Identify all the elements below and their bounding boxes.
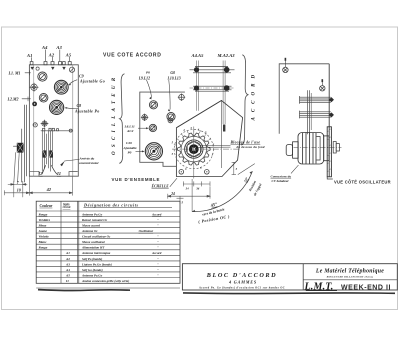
capacitor stack upper	[300, 96, 331, 104]
svg-text:A2: A2	[48, 52, 55, 57]
side bracket	[22, 105, 27, 182]
hub nut hexagon	[187, 142, 200, 157]
svg-text:": "	[157, 224, 159, 228]
bolt top-left	[283, 67, 288, 72]
table grid	[36, 201, 180, 288]
svg-text:CV baladeur: CV baladeur	[272, 179, 290, 183]
svg-text:Blanc: Blanc	[38, 240, 48, 244]
svg-text:": "	[157, 240, 159, 244]
panel plate accord	[29, 65, 78, 176]
svg-text:Rouge: Rouge	[39, 212, 48, 216]
svg-text:A4.A5: A4.A5	[191, 53, 205, 58]
G_MIDVIEW	[112, 71, 186, 189]
arrow to panel top	[31, 57, 70, 69]
svg-text:BLOC D'ACCORD: BLOC D'ACCORD	[206, 272, 277, 279]
svg-text:Antenne Po.Go: Antenne Po.Go	[81, 273, 103, 277]
svg-text:A5: A5	[65, 52, 72, 57]
G_TITLEBLOCK	[182, 264, 397, 294]
svg-text:Désignation des circuits: Désignation des circuits	[83, 202, 139, 207]
mounting lug A1	[30, 62, 71, 65]
cross bar upper	[190, 67, 235, 73]
svg-text:OSCILLATEUR: OSCILLATEUR	[112, 74, 117, 155]
svg-text:Masse accord: Masse accord	[81, 224, 100, 228]
crosshair screw	[30, 83, 38, 91]
svg-text:Violette: Violette	[39, 235, 50, 239]
mounting plate edge	[328, 64, 330, 177]
dial disc edge	[327, 127, 331, 177]
svg-text:": "	[157, 257, 159, 261]
shaft bushing left	[286, 142, 298, 158]
support rod	[307, 90, 309, 134]
disc foot bracket	[327, 177, 333, 179]
cord to dial	[14, 153, 16, 182]
wheel disc	[185, 140, 203, 158]
bolt head near plate top	[168, 118, 173, 123]
dimension ticks row	[183, 181, 210, 186]
svg-text:L8.L11: L8.L11	[124, 125, 135, 129]
screw top-left	[36, 67, 39, 70]
knob L10	[167, 113, 175, 121]
knob L2.M2	[39, 94, 48, 103]
drum inner flange	[317, 137, 321, 161]
title block frame	[182, 264, 397, 290]
svg-text:ÉCHELLE: ÉCHELLE	[151, 183, 170, 188]
pulley block	[17, 143, 24, 153]
svg-text:24: 24	[170, 192, 175, 196]
dimension 24	[168, 187, 210, 199]
svg-text:Self Go (bande): Self Go (bande)	[82, 268, 103, 272]
svg-text:Bleue: Bleue	[38, 224, 47, 228]
knob L8	[149, 124, 156, 131]
wire to I1	[52, 166, 57, 174]
svg-text:Oscillateur: Oscillateur	[139, 229, 154, 233]
svg-text:A4: A4	[41, 45, 48, 50]
svg-text:P0: P0	[146, 71, 150, 75]
right hub disc	[324, 136, 329, 161]
cross bar lower	[193, 86, 232, 91]
title block heavy underline	[183, 292, 395, 295]
brace accord	[241, 55, 248, 145]
G_TABLE	[36, 201, 180, 290]
dial scale dashed circle	[174, 130, 213, 169]
scale graduation ticks	[174, 129, 211, 145]
shaft axis	[294, 146, 342, 148]
crosshair screw panel top right	[178, 94, 185, 101]
label 45 deg	[209, 202, 218, 209]
svg-text:": "	[157, 273, 159, 277]
svg-text:L10.L13: L10.L13	[167, 76, 181, 80]
svg-text:Ajustable Go: Ajustable Go	[79, 79, 105, 84]
dial travel arc	[192, 171, 252, 211]
svg-text:Accord: Accord	[151, 251, 162, 255]
svg-text:42: 42	[46, 187, 52, 192]
svg-text:Retour remonté Oc: Retour remonté Oc	[82, 218, 108, 222]
screw left	[33, 123, 37, 127]
svg-text:A3: A3	[65, 262, 70, 266]
shaft nut	[333, 142, 336, 153]
svg-text:": "	[157, 262, 159, 266]
svg-text:34: 34	[185, 186, 190, 190]
svg-text:": "	[157, 268, 159, 272]
svg-text:Le Matériel Téléphonique: Le Matériel Téléphonique	[315, 268, 384, 274]
bolt mid	[320, 86, 325, 91]
svg-text:Circuit: Circuit	[63, 206, 71, 209]
axis lines	[172, 148, 240, 150]
svg-text:A1: A1	[65, 251, 70, 255]
terminal strip bar	[41, 128, 72, 132]
capacitor C9	[54, 80, 68, 94]
G_RIGHTVIEW	[271, 58, 391, 185]
leader echelle	[170, 178, 177, 187]
rod left	[196, 61, 198, 111]
frame outline	[279, 64, 329, 134]
svg-text:WEEK-END II: WEEK-END II	[341, 285, 391, 292]
leader to connexions	[238, 164, 255, 175]
svg-text:L2.M2: L2.M2	[7, 96, 19, 101]
svg-text:36: 36	[195, 186, 200, 190]
foot right	[69, 172, 78, 177]
crosshair screw mid	[141, 114, 148, 121]
svg-text:Verdâtre: Verdâtre	[39, 218, 51, 222]
svg-text:C20: C20	[126, 141, 132, 145]
svg-text:VUE CÔTÉ OSCILLATEUR: VUE CÔTÉ OSCILLATEUR	[334, 180, 391, 185]
bolt circle right	[205, 170, 210, 175]
label 50 deg position	[243, 176, 249, 183]
G_LEFTVIEW	[5, 45, 162, 197]
svg-text:ACCORD: ACCORD	[252, 70, 257, 122]
svg-text:A3: A3	[55, 45, 62, 50]
screw dark	[32, 102, 37, 107]
svg-text:Circuit oscillateur Oc: Circuit oscillateur Oc	[82, 235, 111, 239]
rod right	[222, 61, 224, 125]
svg-text:courant/stator: courant/stator	[79, 161, 99, 165]
brace oscillateur	[119, 74, 124, 164]
svg-text:": "	[157, 246, 159, 250]
svg-text:I1: I1	[65, 279, 69, 283]
svg-text:AC2: AC2	[126, 129, 134, 133]
svg-text:M.A2.A3: M.A2.A3	[217, 53, 236, 58]
svg-text:A5: A5	[65, 273, 70, 277]
svg-text:G0: G0	[170, 71, 175, 75]
svg-text:BOULEVARD BILLANCOURT (Seine): BOULEVARD BILLANCOURT (Seine)	[326, 276, 374, 279]
svg-text:Ajustable: Ajustable	[123, 146, 138, 150]
svg-text:Antenne interrompue: Antenne interrompue	[81, 251, 111, 255]
svg-text:Arrivée du: Arrivée du	[79, 157, 95, 161]
screw top-right	[69, 67, 74, 72]
svg-text:Liaison Po.Go (bande): Liaison Po.Go (bande)	[81, 262, 112, 266]
svg-text:Antenne Po.Go: Antenne Po.Go	[81, 212, 103, 216]
svg-text:L9.L12: L9.L12	[138, 76, 150, 80]
svg-text:I2: I2	[38, 171, 44, 176]
svg-text:L1. M1: L1. M1	[8, 70, 21, 75]
svg-text:P0: P0	[128, 151, 132, 155]
crosshair screw 2	[41, 120, 48, 127]
foot left	[30, 171, 39, 176]
svg-text:A2: A2	[65, 257, 70, 261]
dimension 5 near table corner	[177, 196, 184, 204]
svg-text:Blocage de l'axe: Blocage de l'axe	[230, 140, 261, 144]
svg-text:A1: A1	[26, 53, 32, 58]
svg-text:": "	[157, 218, 159, 222]
table bottom heavy line	[38, 289, 130, 292]
label blocage de l'axe	[199, 144, 231, 146]
svg-text:Rouge: Rouge	[39, 246, 48, 250]
svg-text:A4: A4	[65, 268, 70, 272]
wire to I2	[42, 166, 45, 174]
svg-text:10: 10	[17, 187, 21, 192]
arc start extension	[191, 179, 193, 212]
panel plate oscillateur	[140, 92, 185, 166]
svg-text:Self Po (bande): Self Po (bande)	[82, 257, 102, 261]
drum body	[298, 133, 324, 165]
svg-text:Masse oscillateur: Masse oscillateur	[81, 240, 106, 244]
G_TOPBRACKET	[177, 53, 257, 145]
svg-text:4 GAMMES: 4 GAMMES	[228, 280, 257, 285]
capacitor C8	[50, 100, 64, 114]
knob L9	[149, 101, 157, 109]
svg-text:Amène connexion grille (selfs: Amène connexion grille (selfs série)	[81, 279, 129, 283]
bolt circle left	[179, 170, 184, 175]
svg-text:Alimentation HT: Alimentation HT	[81, 246, 105, 250]
bobbin I2	[43, 150, 47, 157]
G_WHEEL	[168, 101, 265, 225]
vertical dim line right	[232, 162, 236, 174]
knob L1.M1	[38, 72, 47, 81]
svg-text:C8: C8	[77, 103, 82, 108]
svg-text:VUE COTE ACCORD: VUE COTE ACCORD	[103, 53, 161, 59]
svg-text:Accord Po. Go (bandes) d'exclu: Accord Po. Go (bandes) d'exclusion OC1 s…	[198, 287, 285, 290]
svg-text:VUE D'ENSEMBLE: VUE D'ENSEMBLE	[112, 177, 161, 182]
capacitor C20	[145, 143, 162, 160]
hub	[189, 144, 199, 154]
hub ring ticks	[185, 140, 203, 158]
svg-text:Couleur: Couleur	[40, 204, 53, 208]
svg-text:Accord: Accord	[151, 212, 162, 216]
strut diagonal	[177, 100, 222, 127]
plate apex vertical line	[220, 101, 222, 168]
svg-text:I1: I1	[56, 171, 61, 176]
dial plate polygon	[176, 101, 242, 177]
svg-text:du dessous du fond: du dessous du fond	[237, 145, 265, 149]
gear teeth ring	[178, 133, 210, 165]
bobbin I1	[49, 150, 53, 157]
svg-text:Jaune: Jaune	[39, 229, 48, 233]
capacitor stack lower	[300, 111, 331, 119]
svg-text:Antenne Oc: Antenne Oc	[81, 229, 98, 233]
coil frame rails	[42, 131, 52, 171]
svg-text:": "	[157, 235, 159, 239]
svg-text:Ajustable Po: Ajustable Po	[74, 109, 100, 114]
